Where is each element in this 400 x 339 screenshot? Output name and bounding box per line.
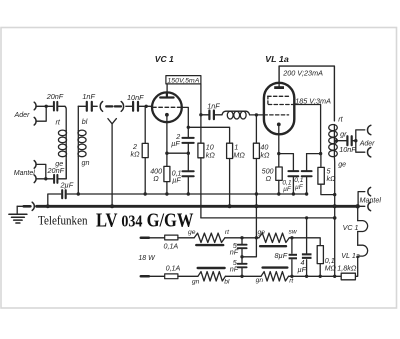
tube VC1 grid (dashed): [153, 106, 182, 108]
wire: [65, 160, 67, 179]
node bus end: [356, 204, 360, 208]
tap bar above zigzag4: [263, 266, 288, 268]
svg-text:µF: µF: [298, 266, 307, 274]
svg-text:µF: µF: [171, 140, 180, 148]
node 40k vertical crossings: [254, 204, 258, 208]
tap bar under zigzag2: [260, 245, 286, 247]
svg-text:Ader: Ader: [359, 140, 375, 147]
resistor R 1M: [227, 143, 233, 158]
svg-text:1nF: 1nF: [207, 102, 220, 111]
wire 10k to B+ rail: [200, 158, 202, 218]
svg-text:Telefunken: Telefunken: [38, 213, 88, 228]
connector VL1a heater socket: [358, 245, 368, 256]
capacitor C 5nF lower: [241, 257, 243, 277]
resistor R 1,8k heater dropper: [341, 273, 355, 280]
capacitor C 2uF series in ground line: [62, 190, 65, 198]
svg-text:Mantel: Mantel: [14, 170, 35, 177]
node 8uF bottom: [290, 275, 293, 278]
wire: [36, 106, 46, 121]
capacitor C 2uF feedback: [187, 127, 189, 153]
svg-text:Mantel: Mantel: [360, 196, 382, 204]
svg-text:1nF: 1nF: [82, 92, 95, 101]
svg-text:18 W: 18 W: [138, 255, 156, 262]
connector VC1 heater socket: [358, 221, 368, 232]
resistor R 10k anode load: [198, 143, 204, 158]
svg-text:sw: sw: [289, 228, 298, 235]
wire: [149, 237, 165, 239]
svg-text:2µF: 2µF: [60, 180, 74, 189]
wire: [36, 164, 46, 178]
tap bar under zigzag1: [196, 244, 223, 246]
capacitor C 4uF electrolytic: [306, 218, 308, 276]
tap bar above zigzag3: [198, 267, 225, 269]
svg-text:µF: µF: [295, 184, 304, 191]
svg-text:ge: ge: [338, 161, 346, 169]
svg-text:gn: gn: [82, 159, 90, 167]
node on ground line: [277, 192, 280, 195]
node 5nF midpoint: [240, 255, 243, 258]
svg-text:Ader: Ader: [14, 111, 31, 119]
resistor heater wire ge-rt (zigzag): [194, 233, 225, 242]
wire 40k down to heater tap: [242, 159, 256, 257]
svg-text:nF: nF: [230, 248, 239, 256]
connector Mantel input jack bottom: [34, 175, 36, 183]
connector mains pin row1: [141, 237, 149, 240]
svg-text:gr: gr: [340, 131, 347, 139]
node on ground line: [305, 192, 308, 195]
node transformer line bottom: [333, 275, 336, 278]
wire: [65, 106, 66, 130]
wire signal-ground line: [48, 194, 307, 206]
connector mains plug on bus: [32, 202, 34, 210]
node B+ to output transformer: [333, 216, 337, 220]
svg-text:Ω: Ω: [266, 175, 272, 183]
wire: [225, 275, 261, 277]
wire node line to 1M: [188, 127, 229, 143]
node: [165, 152, 168, 155]
svg-text:VC 1: VC 1: [343, 224, 359, 232]
svg-text:µF: µF: [172, 176, 181, 184]
svg-text:5: 5: [327, 167, 331, 175]
inductor L series 3 loops: [222, 111, 250, 115]
shielded cable symbol: [100, 102, 102, 112]
node tap: [335, 139, 338, 142]
svg-text:200 V;23mA: 200 V;23mA: [282, 69, 323, 78]
fuse 0,1A row2: [165, 274, 178, 279]
wire anode rail 200V: [279, 66, 334, 121]
svg-text:10: 10: [206, 144, 214, 152]
svg-text:VL 1a: VL 1a: [265, 54, 289, 64]
wire chassis ground bus (thick): [37, 205, 358, 208]
tube VL1a cathode: [277, 123, 281, 127]
svg-text:LV 034 G/GW: LV 034 G/GW: [96, 210, 194, 232]
svg-text:10nF: 10nF: [127, 93, 144, 102]
svg-text:40: 40: [260, 144, 268, 152]
svg-text:ge: ge: [258, 229, 266, 236]
svg-text:8µF: 8µF: [275, 251, 288, 260]
svg-text:1,8kΩ: 1,8kΩ: [337, 264, 357, 273]
svg-text:gn: gn: [256, 277, 264, 284]
node on ground line: [187, 192, 190, 195]
svg-text:bl: bl: [224, 278, 230, 285]
measurement box 150V,5mA: [166, 76, 201, 84]
wire: [65, 157, 67, 179]
resistor heater wire ge-sw (zigzag): [259, 233, 289, 242]
wire: [77, 157, 79, 195]
wire B+ rail: [201, 217, 335, 219]
fuse 0,1A row1: [165, 235, 178, 240]
node output: [354, 139, 357, 142]
wire: [149, 275, 165, 277]
svg-text:gn: gn: [192, 278, 200, 285]
svg-text:Ω: Ω: [153, 175, 159, 183]
connector Mantel speaker jacks: [358, 192, 365, 207]
node 5nF bottom: [240, 275, 243, 278]
wire: [178, 275, 198, 277]
node anode out: [199, 113, 202, 116]
wire B+ drop via 10k: [200, 84, 202, 143]
wire: [225, 237, 259, 239]
wire shield to bus: [111, 124, 113, 207]
wire screen 185V: [294, 105, 320, 154]
wire winding bottom ge: [333, 157, 335, 276]
wire: [77, 106, 79, 130]
capacitor C 0,1uF cathode bypass VL1a: [279, 154, 294, 194]
wire: [178, 237, 194, 239]
wire anode side: [182, 107, 189, 127]
wire box to VC1 top: [166, 84, 168, 93]
node grid junction VL1a: [255, 113, 258, 116]
node sw junction: [290, 236, 293, 239]
svg-text:kΩ: kΩ: [260, 151, 270, 159]
connector mains pin row2: [141, 275, 149, 278]
connector Mantel input jack top: [34, 161, 36, 169]
wire: [36, 178, 46, 180]
svg-text:0,1A: 0,1A: [164, 242, 179, 250]
svg-text:150V,5mA: 150V,5mA: [167, 77, 199, 84]
resistor R 500 ohm cathode: [278, 154, 280, 167]
resistor R 5k screen feed: [320, 154, 322, 168]
node 5nF tap: [240, 236, 243, 239]
svg-text:0,1A: 0,1A: [166, 264, 181, 272]
svg-text:kΩ: kΩ: [327, 175, 337, 183]
node 4uF bottom: [305, 275, 308, 278]
svg-text:bl: bl: [82, 118, 88, 126]
tube VL1a anode: [274, 86, 284, 89]
node 40k line joins heater: [255, 236, 258, 239]
svg-text:185 V;3mA: 185 V;3mA: [295, 97, 331, 106]
svg-text:MΩ: MΩ: [325, 265, 337, 273]
node 2uF to bus: [46, 204, 50, 208]
svg-text:MΩ: MΩ: [233, 151, 245, 159]
node 1M to bus: [228, 204, 232, 208]
tube VL1a grid3 (dashed): [268, 95, 290, 97]
inductor T1 primary winding rt/ge: [65, 131, 67, 157]
svg-text:kΩ: kΩ: [206, 151, 216, 159]
svg-text:µF: µF: [283, 186, 292, 193]
svg-text:kΩ: kΩ: [131, 150, 141, 158]
inductor T2 output transformer winding: [333, 125, 335, 157]
svg-text:1: 1: [234, 144, 238, 152]
node 0,1M bottom: [319, 275, 322, 278]
node input junction: [45, 105, 48, 108]
resistor R 40k grid: [255, 115, 257, 143]
ground symbol: [16, 206, 18, 213]
node transformer bottom joins: [333, 193, 336, 196]
wire screen to cap: [307, 153, 321, 155]
node B+ 4uF tap: [305, 216, 308, 219]
node on ground line: [292, 192, 295, 195]
tube VL1a envelope: [264, 83, 294, 135]
node shield on bus: [110, 204, 114, 208]
capacitor C 1nF coupling: [78, 105, 97, 107]
svg-text:VL 1a: VL 1a: [341, 252, 360, 260]
capacitor C 10nF coupling: [126, 105, 153, 107]
inductor T1 secondary winding bl/gn: [77, 131, 79, 157]
wire cathode: [278, 134, 280, 153]
capacitor C 0,1uF screen bypass: [306, 154, 308, 194]
wire: [36, 105, 46, 107]
node on ground line: [144, 192, 147, 195]
wire heater bottom line: [289, 275, 342, 277]
svg-text:VC 1: VC 1: [155, 54, 174, 64]
wire heater feed column: [357, 206, 359, 220]
connector Ader input jack bottom: [34, 117, 36, 125]
capacitor C 10nF output: [337, 140, 356, 142]
resistor R 2k grid leak: [144, 106, 146, 143]
connector Ader speaker jacks: [356, 130, 365, 152]
node on ground line: [165, 192, 168, 195]
tube VC1 anode plate: [160, 92, 173, 97]
tube VL1a grid1 (dashed): [264, 114, 289, 116]
resistor heater wire gn-bl (zigzag): [198, 272, 226, 281]
node cathode: [277, 152, 280, 155]
node cathode junction: [187, 152, 190, 155]
capacitor C 1nF interstage: [201, 114, 222, 116]
wire to VL1a grid: [250, 114, 264, 116]
tube VC1 cathode: [165, 113, 169, 117]
capacitor C 20nF antenna: [46, 105, 65, 107]
node screen junction: [319, 152, 322, 155]
node on ground line: [77, 192, 80, 195]
svg-text:20nF: 20nF: [47, 166, 65, 175]
capacitor C 0,1uF cathode bypass: [187, 153, 189, 194]
tube VL1a grid2 screen (dashed): [268, 104, 294, 106]
capacitor C 5nF upper: [241, 238, 243, 257]
node Mantel junction: [44, 177, 47, 180]
node on ground line: [255, 192, 258, 195]
connector Ader input jack top: [34, 102, 36, 110]
resistor heater wire gn-rt (zigzag): [261, 272, 289, 281]
node grid junction VC1: [145, 105, 148, 108]
node: [187, 126, 190, 129]
svg-text:10nF: 10nF: [339, 145, 356, 154]
resistor R 400 ohm cathode: [166, 122, 168, 166]
resistor R 0,1M: [317, 246, 323, 264]
svg-text:nF: nF: [230, 265, 239, 273]
svg-text:20nF: 20nF: [46, 92, 64, 101]
shield ground fork: [108, 119, 117, 124]
capacitor C 20nF Mantel: [46, 178, 66, 180]
tube VC1 envelope: [152, 92, 182, 122]
wire cathode tie: [167, 152, 188, 154]
capacitor C 8uF electrolytic: [291, 238, 293, 276]
